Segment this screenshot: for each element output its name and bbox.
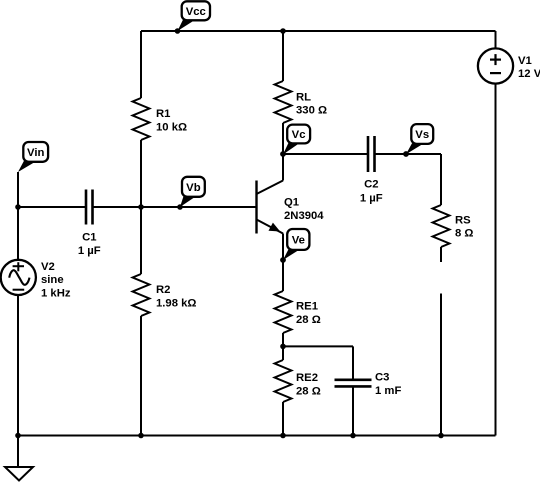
svg-text:V2: V2 [41,261,55,273]
svg-text:8 Ω: 8 Ω [455,228,473,240]
svg-text:R2: R2 [156,284,170,296]
svg-text:Vb: Vb [186,182,201,194]
svg-text:Vin: Vin [27,147,44,159]
svg-text:RS: RS [455,215,471,227]
svg-text:R1: R1 [156,108,170,120]
svg-text:1 mF: 1 mF [375,385,401,397]
svg-text:RE2: RE2 [296,372,318,384]
svg-text:1 kHz: 1 kHz [41,287,71,299]
svg-text:RE1: RE1 [296,301,318,313]
svg-text:28 Ω: 28 Ω [296,314,321,326]
svg-text:10 kΩ: 10 kΩ [156,121,187,133]
svg-text:sine: sine [41,274,64,286]
svg-text:1 µF: 1 µF [360,193,383,205]
svg-text:12 V: 12 V [518,68,540,80]
svg-text:1 µF: 1 µF [78,245,101,257]
svg-text:C3: C3 [375,372,389,384]
svg-text:1.98 kΩ: 1.98 kΩ [156,297,196,309]
svg-text:C1: C1 [82,232,96,244]
svg-text:28 Ω: 28 Ω [296,386,321,398]
svg-text:330 Ω: 330 Ω [296,104,327,116]
svg-text:C2: C2 [364,179,378,191]
svg-text:Q1: Q1 [284,197,299,209]
svg-text:Vs: Vs [415,129,429,141]
svg-text:Ve: Ve [292,235,305,247]
svg-text:Vcc: Vcc [186,6,206,18]
svg-text:2N3904: 2N3904 [284,210,324,222]
svg-text:RL: RL [296,91,311,103]
svg-text:Vc: Vc [292,129,306,141]
svg-text:V1: V1 [518,55,532,67]
